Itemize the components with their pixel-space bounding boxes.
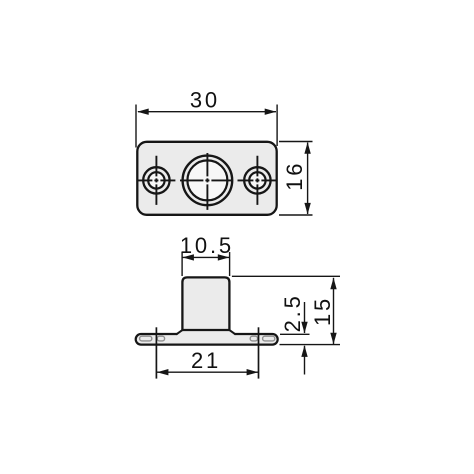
- dim 21 arrow left: [157, 369, 169, 375]
- boss cylinder: [182, 277, 229, 330]
- left hole inner circle: [148, 172, 164, 188]
- svg-text:30: 30: [190, 88, 220, 113]
- dim 30 extension line right: [276, 105, 278, 147]
- dim 30 extension line left: [135, 105, 137, 148]
- dim 15 extension line bottom: [280, 344, 341, 346]
- flange right hole recess inner: [250, 336, 257, 341]
- dim 16 extension line top: [279, 141, 313, 143]
- dim 2.5 upper arrow (down): [301, 322, 307, 334]
- dim 16 extension line bottom: [279, 214, 313, 216]
- dim 2.5 lower arrow (up): [301, 345, 307, 357]
- dim 30 dimension line: [138, 111, 276, 113]
- center hole inner circle: [187, 160, 227, 200]
- center hole outer circle: [183, 156, 233, 206]
- top view plate body: [137, 142, 276, 215]
- hole center line right (21 extension): [258, 327, 260, 378]
- dim 10.5 arrow right: [218, 254, 230, 260]
- dim 16 arrow top: [304, 142, 310, 154]
- boss base skirt fill: [176, 330, 235, 337]
- dim 15 arrow bottom: [330, 333, 336, 345]
- dim 15 arrow top: [330, 278, 336, 290]
- dim 10.5 extension line left: [181, 252, 183, 276]
- left hole outer circle: [143, 167, 169, 193]
- right hole vertical center line: [256, 156, 258, 205]
- dim 15 dimension line: [333, 278, 335, 344]
- svg-text:15: 15: [310, 296, 335, 326]
- svg-text:2.5: 2.5: [280, 293, 305, 332]
- boss base skirt left edge: [176, 330, 183, 335]
- dim 21 arrow right: [247, 369, 259, 375]
- flange left hole recess inner: [157, 336, 164, 341]
- center hole vertical center line: [206, 153, 208, 210]
- front view flange plate: [136, 334, 278, 345]
- dim 16 dimension line: [307, 143, 309, 215]
- svg-text:10.5: 10.5: [180, 233, 234, 258]
- dim 2.5 upper leader line: [304, 302, 306, 333]
- horizontal center line: [138, 179, 277, 181]
- dim 10.5 arrow left: [182, 254, 194, 260]
- flange right hole recess outer: [263, 336, 275, 341]
- dim 2.5 lower leader line: [304, 346, 306, 375]
- dim 10.5 extension line right: [229, 252, 231, 276]
- flange left hole recess outer: [140, 336, 152, 341]
- right hole inner circle: [249, 172, 265, 188]
- boss base skirt right edge: [229, 330, 236, 335]
- dim 2.5 extension line top: [280, 333, 310, 335]
- right hole outer circle: [244, 167, 270, 193]
- hole center line left (21 extension): [155, 327, 157, 378]
- svg-text:16: 16: [282, 161, 307, 191]
- dim 21 dimension line: [157, 371, 258, 373]
- dim 10.5 dimension line: [182, 256, 230, 258]
- dim 15 extension line top: [232, 275, 340, 277]
- dim 16 arrow bottom: [304, 203, 310, 215]
- dim 30 arrow left: [137, 109, 149, 115]
- svg-text:21: 21: [191, 348, 221, 373]
- left hole vertical center line: [155, 156, 157, 205]
- dim 30 arrow right: [265, 109, 277, 115]
